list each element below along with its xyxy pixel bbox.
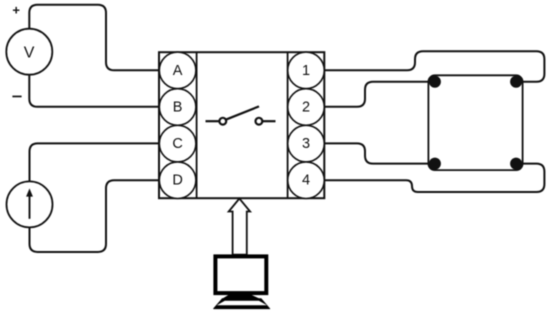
- svg-text:3: 3: [302, 136, 310, 152]
- svg-text:A: A: [173, 63, 183, 79]
- svg-text:4: 4: [302, 173, 310, 189]
- svg-text:2: 2: [302, 100, 310, 116]
- svg-text:B: B: [173, 100, 183, 116]
- svg-text:+: +: [12, 3, 20, 18]
- svg-text:V: V: [24, 44, 35, 61]
- svg-text:C: C: [172, 136, 182, 152]
- svg-text:D: D: [172, 173, 182, 189]
- svg-text:1: 1: [302, 63, 310, 79]
